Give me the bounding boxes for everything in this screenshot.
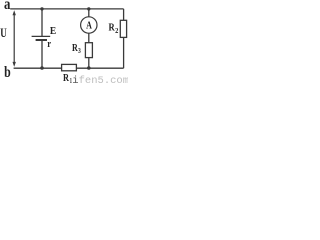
- node junction dot ammeter top: [87, 7, 90, 10]
- wire bottom left segment: [14, 67, 62, 69]
- wire ammeter to R3: [88, 33, 90, 43]
- wire battery branch lower: [41, 41, 43, 68]
- svg-text:U: U: [0, 26, 7, 40]
- wire battery branch upper: [41, 9, 43, 36]
- wire bottom right segment: [76, 67, 123, 69]
- arrowhead up near a: [13, 10, 16, 15]
- arrowhead down near b: [13, 62, 16, 67]
- battery E short plate: [36, 39, 47, 41]
- wire right edge lower: [123, 37, 125, 68]
- label R2: [109, 21, 119, 34]
- node junction dot battery bottom: [40, 66, 44, 70]
- node a junction dot battery: [40, 7, 43, 10]
- svg-text:a: a: [4, 0, 11, 13]
- svg-text:b: b: [4, 64, 11, 81]
- svg-text:ifen5.com: ifen5.com: [72, 75, 128, 85]
- svg-text:r: r: [47, 39, 51, 50]
- resistor R3: [85, 43, 92, 58]
- wire top a to right corner: [10, 8, 123, 10]
- resistor R1: [62, 64, 77, 70]
- voltage arrow U line: [13, 14, 15, 63]
- label R3: [72, 42, 81, 55]
- label R1: [63, 72, 72, 85]
- wire right edge upper: [123, 9, 125, 20]
- svg-text:E: E: [50, 26, 56, 37]
- svg-text:A: A: [86, 21, 92, 32]
- wire R3 to bottom: [88, 58, 90, 69]
- resistor R2: [120, 20, 126, 37]
- wire ammeter branch upper: [88, 9, 90, 17]
- svg-text:R: R: [63, 72, 70, 84]
- node junction dot R3 bottom: [87, 66, 91, 70]
- ammeter U1 circle: [81, 17, 97, 33]
- svg-text:3: 3: [78, 46, 81, 55]
- battery E long plate: [32, 35, 51, 37]
- svg-text:2: 2: [115, 26, 118, 35]
